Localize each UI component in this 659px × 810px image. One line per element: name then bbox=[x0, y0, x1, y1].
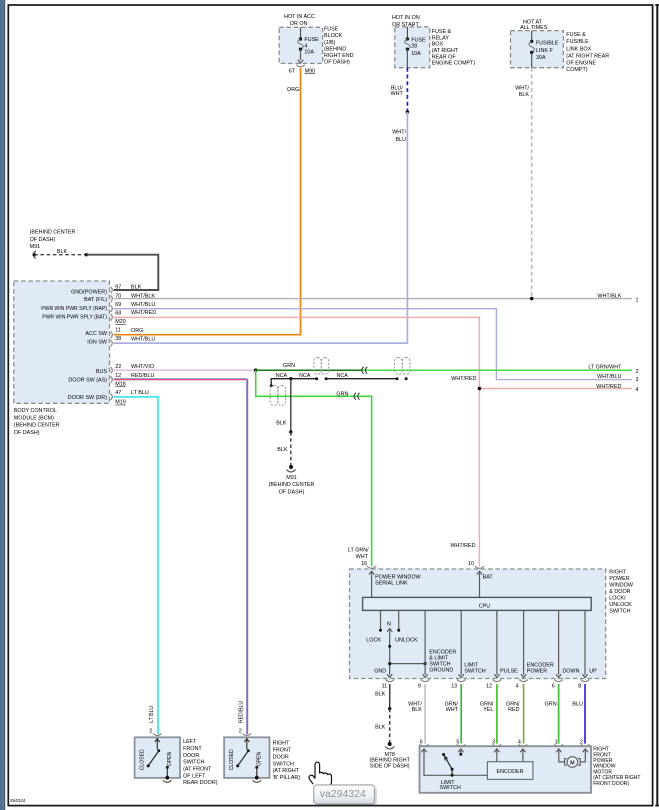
svg-text:2: 2 bbox=[239, 729, 242, 735]
svg-text:& DOOR: & DOOR bbox=[609, 589, 630, 595]
svg-text:DOOR: DOOR bbox=[183, 753, 199, 759]
svg-text:WHT/RED: WHT/RED bbox=[131, 310, 156, 316]
wire WHT/RED BAT from BCM pin68 bbox=[114, 317, 639, 566]
fuse block 1 side label bbox=[324, 27, 354, 66]
BCM caption bbox=[14, 408, 60, 436]
svg-text:FUSE: FUSE bbox=[411, 38, 426, 44]
svg-text:FRONT: FRONT bbox=[273, 748, 292, 754]
svg-text:FUSE &: FUSE & bbox=[432, 29, 452, 35]
svg-text:M90: M90 bbox=[305, 69, 316, 75]
svg-text:RELAY: RELAY bbox=[432, 35, 450, 41]
power window switch box bbox=[350, 569, 606, 679]
svg-text:va294324: va294324 bbox=[320, 788, 366, 800]
fuse box 2 title HOT IN ON OR START bbox=[392, 15, 420, 28]
svg-text:M: M bbox=[570, 761, 575, 767]
svg-text:4: 4 bbox=[304, 43, 307, 49]
svg-text:11: 11 bbox=[115, 328, 121, 334]
left door switch caption bbox=[183, 739, 218, 786]
wire LT BLU from BCM pin47 to left door switch bbox=[114, 397, 159, 734]
svg-text:CLOSED: CLOSED bbox=[140, 749, 146, 770]
svg-text:BLK: BLK bbox=[375, 725, 386, 731]
fusible link F 30A bbox=[529, 31, 559, 68]
svg-text:OPEN: OPEN bbox=[167, 751, 173, 766]
inline connector symbol B bbox=[395, 358, 411, 375]
wire ORG from fuse 4 to BCM ACC SW bbox=[114, 68, 301, 335]
motor box side label bbox=[593, 747, 640, 787]
svg-text:M18: M18 bbox=[115, 382, 126, 388]
motor internal arrows bbox=[421, 749, 588, 752]
svg-text:RED/BLU: RED/BLU bbox=[131, 373, 154, 379]
fuse box 3 side label bbox=[566, 32, 609, 73]
svg-text:N: N bbox=[387, 621, 391, 627]
inline connector symbol A bbox=[314, 358, 329, 375]
svg-text:ENGINE COMPT): ENGINE COMPT) bbox=[432, 60, 476, 66]
svg-text:10: 10 bbox=[468, 561, 474, 567]
svg-text:WHT/VIO: WHT/VIO bbox=[131, 364, 154, 370]
svg-text:(AT RIGHT REAR: (AT RIGHT REAR bbox=[566, 53, 609, 59]
switch pin 10 connector bbox=[468, 561, 493, 597]
svg-text:CLOSED: CLOSED bbox=[229, 749, 235, 770]
svg-text:& LIMIT: & LIMIT bbox=[429, 656, 449, 662]
wire GRN/WHT switch pin13 to motor pin5 bbox=[445, 684, 462, 744]
svg-text:FUSIBLE: FUSIBLE bbox=[566, 39, 589, 45]
BCM pin labels inside bbox=[41, 290, 108, 401]
svg-text:2: 2 bbox=[636, 369, 639, 375]
svg-text:BLU: BLU bbox=[396, 137, 407, 143]
right door switch caption bbox=[273, 741, 301, 781]
svg-text:LT GRN/: LT GRN/ bbox=[348, 548, 369, 554]
svg-text:SWITCH: SWITCH bbox=[183, 760, 204, 766]
svg-text:BLK: BLK bbox=[277, 447, 288, 453]
motor symbol M bbox=[559, 749, 586, 767]
inline connector symbol C bbox=[270, 385, 286, 405]
svg-text:13: 13 bbox=[451, 684, 457, 690]
svg-text:DOWN: DOWN bbox=[562, 669, 579, 675]
BCM pin numbers and wire colors bbox=[115, 284, 156, 405]
svg-text:HOT IN ACC: HOT IN ACC bbox=[284, 14, 315, 20]
svg-text:97: 97 bbox=[115, 285, 121, 291]
left door switch contacts bbox=[140, 738, 173, 782]
wire WHT/VIO BUS from BCM pin22 bbox=[114, 368, 258, 372]
svg-text:2: 2 bbox=[580, 739, 583, 745]
svg-text:WHT: WHT bbox=[446, 707, 459, 713]
wire RED/BLU from BCM pin12 to right door switch bbox=[114, 379, 248, 735]
svg-text:OF LEFT: OF LEFT bbox=[183, 773, 206, 779]
svg-text:WHT: WHT bbox=[356, 554, 369, 560]
svg-text:WHT/BLU: WHT/BLU bbox=[131, 336, 155, 342]
svg-text:BUS: BUS bbox=[96, 369, 107, 375]
right door switch pin 2 bbox=[239, 729, 251, 736]
svg-text:LT BLU: LT BLU bbox=[149, 706, 155, 723]
svg-text:WHT/RED: WHT/RED bbox=[596, 384, 621, 390]
svg-text:(AT RIGHT: (AT RIGHT bbox=[273, 768, 300, 774]
svg-text:ORG: ORG bbox=[287, 87, 299, 93]
svg-text:RIGHT: RIGHT bbox=[609, 569, 626, 575]
svg-text:BLK: BLK bbox=[375, 692, 386, 698]
svg-text:M19: M19 bbox=[115, 400, 126, 406]
fuse box 3 title HOT AT ALL TIMES bbox=[520, 19, 548, 31]
svg-text:RIGHT: RIGHT bbox=[273, 741, 290, 747]
wire BLU/WHT from fuse 28 bbox=[391, 68, 408, 112]
wire WHT/BLU from splice to BCM IGN SW bbox=[114, 112, 408, 343]
fuse block 1 (J/B) box bbox=[279, 27, 322, 63]
svg-text:M91: M91 bbox=[30, 244, 40, 250]
svg-text:11: 11 bbox=[382, 684, 388, 690]
svg-text:BODY CONTROL: BODY CONTROL bbox=[14, 408, 57, 414]
svg-text:OR START: OR START bbox=[392, 22, 419, 28]
svg-text:BOX: BOX bbox=[432, 41, 444, 47]
switch bottom pin numbers bbox=[382, 684, 582, 690]
svg-text:294324: 294324 bbox=[10, 798, 26, 803]
svg-text:WHT/RED: WHT/RED bbox=[451, 376, 476, 382]
fuse F4 10A bbox=[298, 27, 319, 63]
svg-text:WHT: WHT bbox=[391, 91, 404, 97]
svg-text:PWR WIN PWR SPLY (BAT): PWR WIN PWR SPLY (BAT) bbox=[42, 314, 107, 320]
wire WHT/BLK dashed from fusible link bbox=[515, 68, 531, 299]
svg-text:OR ON: OR ON bbox=[290, 21, 308, 27]
RED/BLU rotated label bbox=[238, 701, 244, 723]
CPU output lines bbox=[423, 610, 588, 677]
encoder ground label bbox=[429, 649, 456, 673]
wire GRN switch pin6 to motor pin1 bbox=[545, 684, 559, 744]
svg-text:28: 28 bbox=[411, 44, 417, 50]
svg-text:LOCK/: LOCK/ bbox=[609, 595, 626, 601]
ground symbol M78 bbox=[369, 742, 410, 770]
splice symbol on GRN wire bbox=[362, 367, 367, 374]
fuse F28 10A bbox=[405, 27, 426, 68]
wire GRN/YEL switch pin12 to motor pin3 bbox=[480, 684, 497, 744]
svg-text:OF DASH): OF DASH) bbox=[14, 430, 40, 436]
switch bottom labels bbox=[464, 663, 597, 675]
svg-text:10A: 10A bbox=[304, 50, 314, 56]
svg-text:DOOR SW (AS): DOOR SW (AS) bbox=[68, 378, 107, 384]
svg-text:FUSE &: FUSE & bbox=[566, 32, 586, 38]
svg-text:LEFT: LEFT bbox=[183, 739, 197, 745]
NCA stub wire (black) bbox=[270, 373, 408, 387]
svg-text:6T: 6T bbox=[289, 68, 296, 74]
connector 6T / M90 bbox=[289, 65, 315, 75]
svg-text:CPU: CPU bbox=[479, 604, 490, 610]
svg-text:GRN: GRN bbox=[336, 391, 348, 397]
wire WHT/BLU RAP from BCM pin69 to right edge pin3 bbox=[114, 309, 639, 384]
svg-text:FRONT DOOR): FRONT DOOR) bbox=[593, 781, 629, 787]
wire WHT/BLK row BCM pin70 to right edge pin1 bbox=[114, 294, 639, 304]
svg-text:NCA: NCA bbox=[337, 373, 349, 379]
wire GRN/RED switch pin4 to motor pin4 bbox=[506, 684, 524, 744]
switch pin 16 connector bbox=[361, 561, 421, 597]
svg-text:SWITCH: SWITCH bbox=[464, 669, 485, 675]
svg-text:REAR DOOR): REAR DOOR) bbox=[183, 780, 218, 786]
ground connector M91 top left bbox=[30, 230, 76, 259]
svg-text:DOOR SW (DR): DOOR SW (DR) bbox=[68, 395, 107, 401]
LT BLU rotated label bbox=[149, 706, 155, 723]
svg-text:POWER: POWER bbox=[609, 576, 629, 582]
svg-text:BLK: BLK bbox=[57, 249, 68, 255]
svg-text:BLOCK: BLOCK bbox=[324, 33, 343, 39]
switch side label bbox=[609, 569, 634, 614]
svg-text:22: 22 bbox=[115, 364, 121, 370]
svg-text:BLK: BLK bbox=[131, 284, 142, 290]
svg-text:UP: UP bbox=[589, 669, 597, 675]
svg-text:SERIAL LINK: SERIAL LINK bbox=[375, 580, 408, 586]
svg-text:UNLOCK: UNLOCK bbox=[609, 602, 632, 608]
svg-text:WHT/BLU: WHT/BLU bbox=[597, 374, 621, 380]
svg-text:HOT IN ON: HOT IN ON bbox=[392, 15, 420, 21]
svg-text:ACC SW: ACC SW bbox=[85, 331, 107, 337]
svg-text:SIDE OF DASH): SIDE OF DASH) bbox=[370, 764, 410, 770]
svg-text:12: 12 bbox=[486, 684, 492, 690]
svg-text:MODULE (BCM): MODULE (BCM) bbox=[14, 415, 54, 421]
wire GRN serial data to right edge pin2 bbox=[256, 363, 639, 375]
switch bottom pin connectors bbox=[385, 679, 589, 681]
svg-text:UNLOCK: UNLOCK bbox=[395, 637, 418, 643]
splice symbol on lower GRN wire bbox=[354, 393, 359, 400]
svg-text:4: 4 bbox=[518, 739, 521, 745]
svg-text:FRONT: FRONT bbox=[183, 746, 202, 752]
svg-text:PULSE: PULSE bbox=[500, 669, 518, 675]
lock/unlock switch inside bbox=[381, 610, 426, 677]
svg-text:WHT/RED: WHT/RED bbox=[450, 543, 475, 549]
svg-text:LT GRN/WHT: LT GRN/WHT bbox=[588, 365, 622, 371]
svg-text:SWITCH: SWITCH bbox=[273, 761, 294, 767]
right front door switch box bbox=[224, 737, 269, 778]
svg-text:30A: 30A bbox=[536, 55, 546, 61]
svg-text:REAR OF: REAR OF bbox=[432, 54, 457, 60]
svg-text:6: 6 bbox=[552, 684, 555, 690]
wire BLK from switch pin11 to ground M78 bbox=[375, 684, 391, 744]
diagram id 294324 bbox=[10, 798, 26, 803]
svg-text:1: 1 bbox=[555, 739, 558, 745]
svg-text:9: 9 bbox=[418, 684, 421, 690]
svg-text:FUSIBLE: FUSIBLE bbox=[536, 40, 559, 46]
svg-text:SWITCH: SWITCH bbox=[440, 785, 461, 791]
svg-text:M91: M91 bbox=[286, 475, 297, 481]
svg-text:PWR WIN PWR SPLY (RAP): PWR WIN PWR SPLY (RAP) bbox=[41, 306, 107, 312]
svg-text:2: 2 bbox=[149, 729, 152, 735]
tooltip va294324 bbox=[314, 785, 377, 806]
svg-text:RED: RED bbox=[508, 707, 519, 713]
svg-text:LINK F: LINK F bbox=[536, 48, 553, 54]
wire BLU switch pin8 to motor pin2 bbox=[572, 684, 585, 744]
svg-text:(BEHIND CENTER: (BEHIND CENTER bbox=[14, 423, 60, 429]
motor top pin connectors bbox=[420, 744, 590, 746]
wire BLK to ground M91 bbox=[276, 379, 292, 467]
svg-text:LIMIT: LIMIT bbox=[464, 663, 478, 669]
svg-text:16: 16 bbox=[361, 561, 367, 567]
svg-text:10A: 10A bbox=[411, 51, 421, 57]
svg-text:'B' PILLAR): 'B' PILLAR) bbox=[273, 775, 301, 781]
svg-text:47: 47 bbox=[115, 390, 121, 396]
svg-text:GRN: GRN bbox=[545, 702, 557, 708]
svg-text:(AT RIGHT: (AT RIGHT bbox=[432, 48, 459, 54]
svg-text:OPEN: OPEN bbox=[256, 751, 262, 766]
fuse &amp; relay box 2 bbox=[395, 27, 430, 68]
svg-text:(AT FRONT: (AT FRONT bbox=[183, 767, 212, 773]
svg-text:GND: GND bbox=[374, 668, 386, 674]
svg-text:OF ENGINE: OF ENGINE bbox=[566, 61, 596, 67]
svg-text:NCA: NCA bbox=[276, 373, 288, 379]
svg-text:6: 6 bbox=[420, 739, 423, 745]
svg-text:BLK: BLK bbox=[412, 707, 423, 713]
svg-text:POWER: POWER bbox=[527, 669, 547, 675]
svg-text:LT BLU: LT BLU bbox=[131, 390, 149, 396]
svg-text:FUSE: FUSE bbox=[304, 37, 319, 43]
limit switch inside motor bbox=[424, 749, 487, 791]
svg-text:ALL TIMES: ALL TIMES bbox=[520, 25, 548, 31]
svg-text:LOCK: LOCK bbox=[366, 637, 381, 643]
body control module BCM box bbox=[14, 281, 110, 403]
BCM pin brackets bbox=[111, 287, 113, 400]
CPU box bbox=[363, 597, 592, 610]
svg-text:BLU: BLU bbox=[572, 702, 583, 708]
svg-text:COMPT): COMPT) bbox=[566, 67, 587, 73]
svg-text:3: 3 bbox=[636, 377, 639, 383]
svg-text:BAT (F/L): BAT (F/L) bbox=[84, 297, 107, 303]
fuse box 2 side label bbox=[432, 29, 476, 66]
svg-text:SWITCH: SWITCH bbox=[609, 608, 630, 614]
svg-text:BLK: BLK bbox=[276, 420, 287, 426]
wire WHT/BLK switch pin9 to motor pin6 bbox=[408, 684, 425, 744]
svg-text:IGN SW: IGN SW bbox=[87, 339, 108, 345]
svg-text:BLK: BLK bbox=[519, 92, 530, 98]
right door switch contacts bbox=[229, 738, 262, 782]
svg-text:LINK BOX: LINK BOX bbox=[566, 47, 591, 53]
svg-text:68: 68 bbox=[115, 311, 121, 317]
motor top pin numbers bbox=[420, 739, 583, 745]
svg-text:WHT/BLU: WHT/BLU bbox=[131, 302, 155, 308]
svg-text:OF DASH): OF DASH) bbox=[279, 489, 305, 495]
power window motor box bbox=[420, 746, 592, 793]
ground symbol M91 bbox=[269, 465, 315, 495]
svg-text:(BEHIND: (BEHIND bbox=[324, 46, 346, 52]
wire label LT GRN/WHT above switch pin16 bbox=[348, 548, 369, 560]
svg-text:ENCODER: ENCODER bbox=[497, 769, 524, 775]
svg-text:(BEHIND CENTER: (BEHIND CENTER bbox=[30, 230, 76, 236]
svg-text:GROUND: GROUND bbox=[429, 668, 453, 674]
svg-text:WHT/: WHT/ bbox=[515, 86, 529, 92]
svg-text:GRN: GRN bbox=[283, 363, 295, 369]
svg-text:ENCODER: ENCODER bbox=[429, 649, 456, 655]
svg-text:GND(POWER): GND(POWER) bbox=[71, 290, 107, 296]
svg-text:FUSE: FUSE bbox=[324, 27, 339, 33]
svg-text:SWITCH: SWITCH bbox=[429, 662, 450, 668]
left front door switch box bbox=[135, 737, 180, 778]
svg-text:(J/B): (J/B) bbox=[324, 40, 336, 46]
svg-text:BAT: BAT bbox=[483, 574, 494, 580]
svg-text:69: 69 bbox=[115, 302, 121, 308]
svg-text:WHT/BLK: WHT/BLK bbox=[597, 294, 621, 300]
svg-text:5: 5 bbox=[456, 739, 459, 745]
svg-text:ORG: ORG bbox=[131, 328, 143, 334]
splice dot fuse28 net bbox=[406, 110, 410, 114]
left door switch pin 2 bbox=[149, 729, 161, 736]
svg-text:RED/BLU: RED/BLU bbox=[238, 701, 244, 723]
svg-text:3: 3 bbox=[492, 739, 495, 745]
encoder box bbox=[487, 749, 533, 779]
svg-text:RIGHT END: RIGHT END bbox=[324, 53, 354, 59]
wire BLK dashed from connector M91 bbox=[34, 249, 88, 257]
svg-text:NCA: NCA bbox=[299, 373, 311, 379]
svg-text:M20: M20 bbox=[115, 319, 126, 325]
wire BLK to BCM GND(POWER) bbox=[86, 255, 158, 290]
svg-text:WHT/: WHT/ bbox=[392, 130, 406, 136]
mouse cursor bbox=[309, 762, 332, 785]
svg-text:4: 4 bbox=[516, 684, 519, 690]
svg-text:DOOR: DOOR bbox=[273, 754, 289, 760]
svg-text:OF DASH): OF DASH) bbox=[324, 60, 350, 66]
svg-text:38: 38 bbox=[115, 336, 121, 342]
svg-text:WINDOW: WINDOW bbox=[609, 582, 634, 588]
svg-text:12: 12 bbox=[115, 373, 121, 379]
svg-text:OF DASH): OF DASH) bbox=[30, 237, 56, 243]
svg-text:ENCODER: ENCODER bbox=[527, 663, 554, 669]
svg-text:8: 8 bbox=[578, 684, 581, 690]
fuse &amp; fusible link box 3 bbox=[511, 31, 564, 68]
svg-text:YEL: YEL bbox=[483, 707, 493, 713]
svg-text:4: 4 bbox=[636, 387, 639, 393]
svg-text:1: 1 bbox=[636, 297, 639, 303]
wire GRN to power window switch pin16 bbox=[256, 370, 372, 566]
fuse block 1 title HOT IN ACC OR ON bbox=[284, 14, 315, 27]
svg-text:(BEHIND CENTER: (BEHIND CENTER bbox=[269, 482, 315, 488]
